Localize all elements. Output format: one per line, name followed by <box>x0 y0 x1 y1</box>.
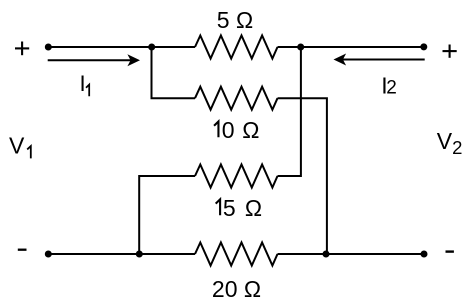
resistor R2 10 ohm <box>195 87 278 110</box>
plus sign top-left <box>15 42 29 56</box>
wire top-left segment <box>48 46 195 48</box>
node B junction dot <box>297 44 304 51</box>
svg-text:I: I <box>80 71 86 96</box>
wire top-right segment <box>278 46 425 48</box>
terminal dot top-left <box>45 44 52 51</box>
resistor R3 15 ohm <box>195 165 278 188</box>
wire vertical from node B down to 15-ohm row <box>278 47 301 176</box>
current arrow I2 line <box>343 59 425 61</box>
minus sign bottom-right <box>446 250 454 252</box>
plus sign top-right <box>443 45 457 58</box>
resistor R4 20 ohm <box>195 243 278 266</box>
svg-text:V: V <box>9 133 25 159</box>
arrowhead I1 <box>127 54 140 66</box>
terminal dot bottom-left <box>45 251 52 258</box>
terminal dot top-right <box>420 43 427 50</box>
minus sign bottom-left <box>18 249 27 251</box>
current arrow I1 line <box>48 59 131 61</box>
resistor R1 5 ohm <box>195 36 278 59</box>
label 10 ohm <box>214 122 218 138</box>
svg-text:Ω: Ω <box>245 195 262 221</box>
wire from R2 right to bottom node <box>278 98 327 254</box>
svg-text:I2: I2 <box>381 73 396 99</box>
bottom-right junction dot <box>323 251 330 258</box>
label 15 ohm <box>216 199 220 215</box>
wire vertical from node A down to 10-ohm row <box>152 47 196 98</box>
wire bottom-right segment <box>278 253 425 255</box>
svg-text:0: 0 <box>222 117 235 143</box>
svg-text:5: 5 <box>223 195 236 221</box>
wire from R3 left down to bottom node <box>139 176 195 254</box>
arrowhead I2 <box>334 54 347 66</box>
svg-text:V2: V2 <box>437 128 463 158</box>
svg-text:5 Ω: 5 Ω <box>217 7 253 33</box>
wire bottom-left segment <box>48 253 195 255</box>
svg-text:Ω: Ω <box>242 117 259 143</box>
terminal dot bottom-right <box>421 251 428 258</box>
svg-text:20 Ω: 20 Ω <box>212 276 261 298</box>
node A junction dot <box>148 44 155 51</box>
bottom-left junction dot <box>136 251 143 258</box>
